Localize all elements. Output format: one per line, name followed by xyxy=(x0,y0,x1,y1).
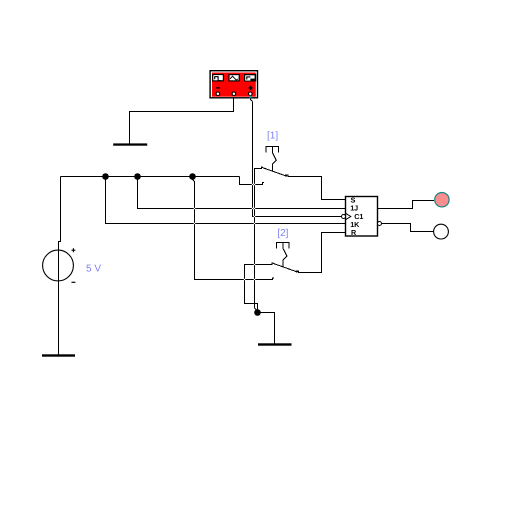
signal generator square-wave button xyxy=(213,75,224,81)
signal generator + terminal teal stub xyxy=(249,96,251,99)
signal generator plus label xyxy=(249,86,253,90)
wire: inverted Q output to white lamp xyxy=(382,224,434,232)
power bus wire (5V rail) xyxy=(61,176,240,178)
voltage source V1 circle xyxy=(43,250,74,281)
wire: signal generator mid terminal to ground xyxy=(130,99,234,144)
wire: 5V source top lead up to bus xyxy=(59,177,61,355)
switch S2 lever xyxy=(273,263,298,272)
switch S1 push-button cap and spring xyxy=(266,147,278,172)
svg-text:[2]: [2] xyxy=(277,228,288,239)
svg-text:[1]: [1] xyxy=(267,131,278,142)
ground symbol (right, switches) xyxy=(258,343,292,345)
wire: junction1 drop to 1K input xyxy=(106,177,346,224)
node D ground junction dot xyxy=(254,309,261,316)
wire: lead through source circle xyxy=(58,242,60,355)
svg-text:5 V: 5 V xyxy=(86,263,101,274)
node A junction dot 1 xyxy=(102,173,109,180)
indicator lamp L1 (lit, red) xyxy=(435,193,449,207)
signal generator minus label xyxy=(216,87,220,88)
wire crossing hop gaps xyxy=(194,184,255,280)
ground symbol (bottom left, 5V source) xyxy=(42,354,75,356)
signal generator G1 body xyxy=(210,71,257,98)
flip-flop U1 clock bubble xyxy=(342,215,346,219)
wire: Q output to red lamp xyxy=(378,201,435,209)
indicator lamp L2 (off, white) xyxy=(434,224,449,239)
ground symbol (generator) xyxy=(113,143,147,145)
wire: switch S1 pole to S input xyxy=(286,175,346,199)
switch S1 lever xyxy=(262,167,287,176)
wire: junction2 drop to 1J input xyxy=(138,177,346,209)
flip-flop U1 clock edge triangle xyxy=(346,213,351,219)
svg-text:R: R xyxy=(351,228,357,237)
voltage source V1 plus sign xyxy=(72,248,76,252)
signal generator triangle-wave button xyxy=(229,75,239,81)
wire: junction3 drop to switch2 lower contact xyxy=(193,177,274,280)
wire: bus right end step down to switch1 lower contact xyxy=(240,177,264,185)
wire: ground junction to right ground symbol xyxy=(258,313,275,344)
signal generator square-wave button (selected, inverted) xyxy=(244,74,256,82)
switch S2 push-button cap and spring xyxy=(277,242,289,267)
flip-flop U1 body xyxy=(346,197,378,237)
signal generator terminal pins xyxy=(216,92,252,96)
flip-flop U1 inverted output bubble xyxy=(378,222,382,226)
node C junction dot 3 xyxy=(189,173,196,180)
node B junction dot 2 xyxy=(134,173,141,180)
wire: switch2 upper contact to ground rail xyxy=(245,263,274,313)
wire: switch1 upper contact to ground rail xyxy=(255,167,263,313)
wire: switch S2 pole to R input xyxy=(296,233,345,273)
voltage source V1 minus sign xyxy=(72,281,76,283)
wire: signal generator + terminal down to clock C1 input xyxy=(251,96,342,217)
